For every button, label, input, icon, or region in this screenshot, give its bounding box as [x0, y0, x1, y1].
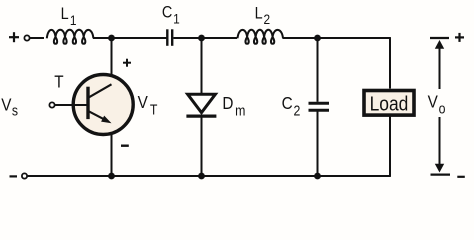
wire — [30, 37, 44, 39]
Vo bottom bar — [431, 174, 451, 176]
Vo up arrow — [435, 40, 444, 49]
node top-B — [198, 35, 205, 42]
diode Dm cathode bar — [186, 114, 216, 117]
node top-A — [108, 35, 115, 42]
load box — [364, 91, 414, 116]
inductor L2 — [238, 30, 284, 44]
transistor VT collector wire — [111, 38, 113, 85]
input terminal + (open circle) — [24, 35, 29, 40]
wire — [173, 37, 237, 39]
capacitor C2 wire lower — [317, 112, 319, 177]
transistor VT body — [73, 75, 133, 135]
transistor emitter stroke with arrow — [88, 111, 106, 120]
output terminal - (open circle) — [22, 173, 27, 178]
svg-text:T: T — [54, 71, 63, 91]
svg-text:Load: Load — [370, 93, 409, 116]
wire — [93, 37, 167, 39]
capacitor C2 plates — [309, 103, 330, 110]
plus near collector — [123, 59, 131, 67]
node bottom-A — [108, 173, 115, 180]
capacitor C1 — [167, 29, 172, 46]
minus sign input — [10, 175, 18, 177]
diode Dm triangle — [188, 94, 216, 112]
transistor collector stroke — [88, 84, 111, 97]
node bottom-C — [314, 173, 321, 180]
bottom rail wire — [27, 175, 390, 177]
diode Dm wire upper — [201, 38, 203, 95]
transistor base wire — [55, 104, 88, 106]
Vo top bar — [430, 37, 449, 39]
minus sign Vo — [457, 176, 465, 178]
wire to load (corner) — [389, 37, 391, 88]
wire — [283, 37, 390, 39]
inductor L1 — [47, 30, 94, 44]
transistor base bar — [86, 87, 89, 119]
wire load to bottom rail — [389, 116, 391, 177]
diode Dm wire lower — [201, 116, 203, 176]
minus near emitter — [121, 144, 129, 146]
plus sign input — [9, 32, 19, 42]
capacitor C2 wire upper — [317, 38, 319, 102]
base terminal (open circle) — [49, 102, 54, 107]
Vo down arrow — [439, 117, 441, 166]
node bottom-B — [198, 173, 205, 180]
node top-C — [314, 35, 321, 42]
plus sign Vo — [455, 33, 464, 42]
transistor VT emitter wire — [111, 123, 113, 177]
